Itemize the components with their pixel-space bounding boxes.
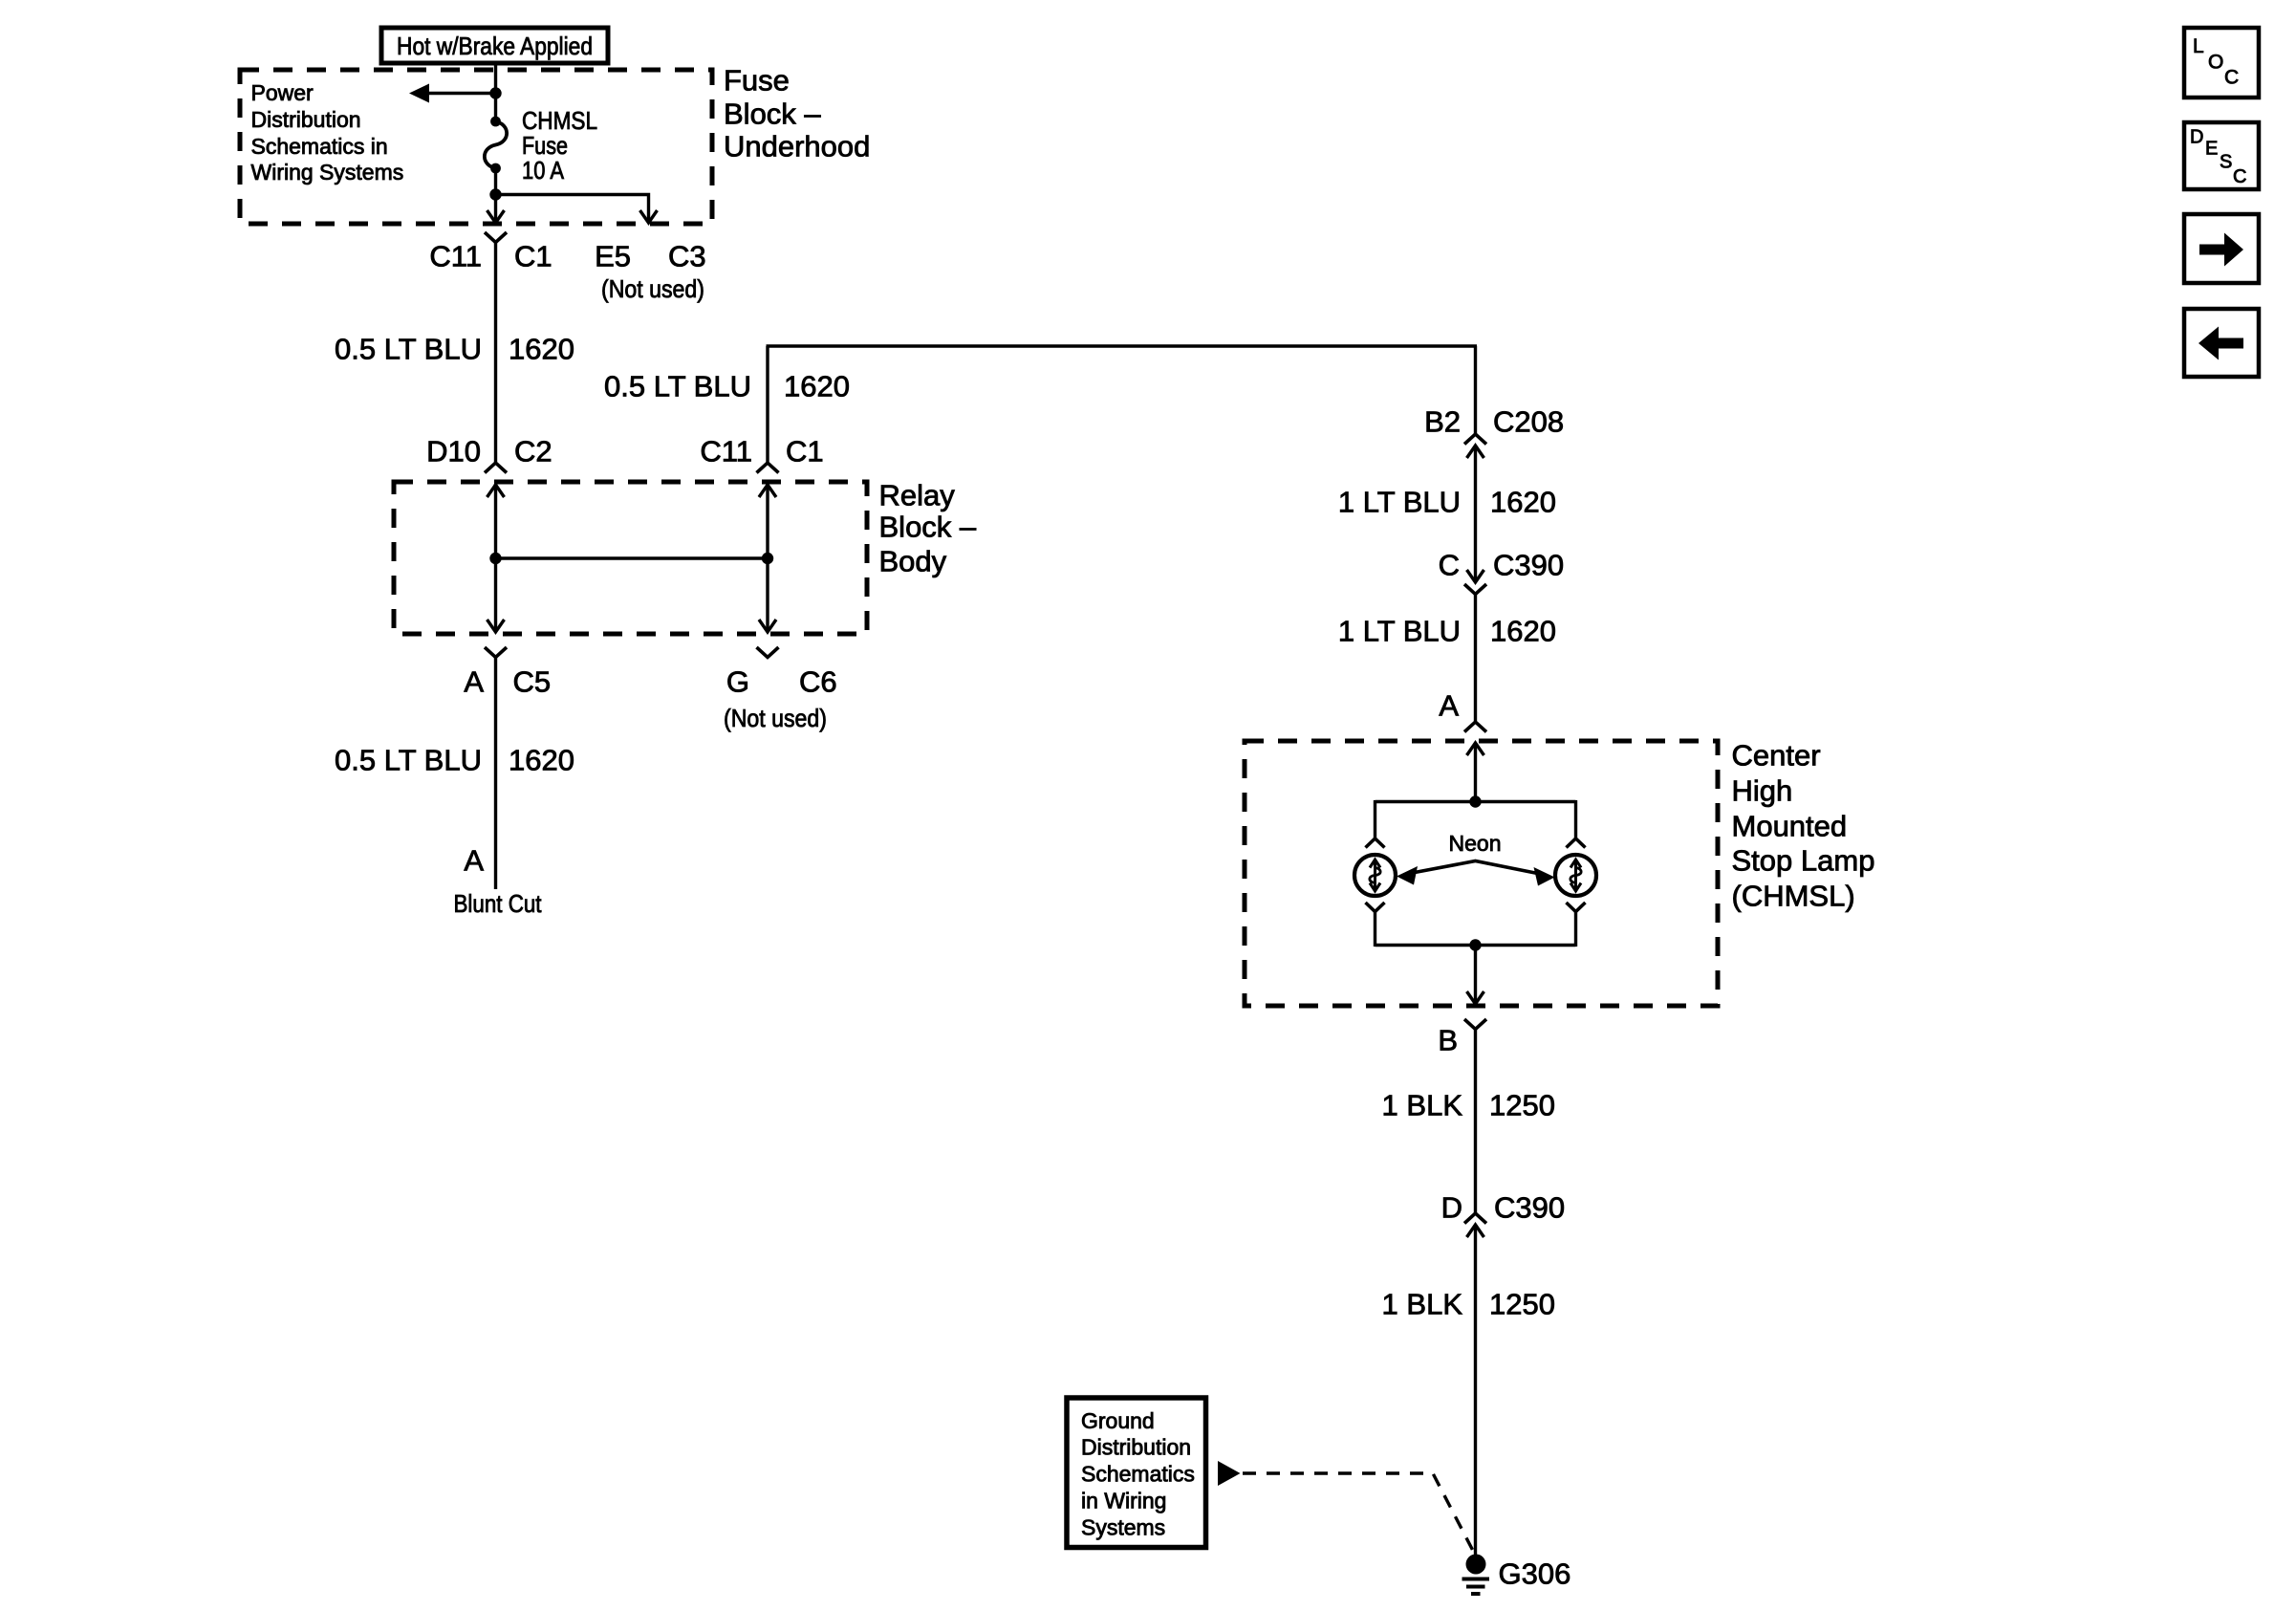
relay block internal wire left (D10 to C5) xyxy=(494,484,497,632)
wire C1 pin C11 down to relay block xyxy=(494,243,497,463)
svg-text:C11: C11 xyxy=(700,435,752,468)
arrow down at CHMSL pin B inside box xyxy=(1467,991,1484,1004)
svg-text:C208: C208 xyxy=(1493,405,1564,439)
center high mounted stop lamp dashed box xyxy=(1245,741,1718,1006)
nav icon back arrow xyxy=(2184,309,2259,377)
ground G306 symbol xyxy=(1462,1555,1490,1595)
node junction at brake feed xyxy=(489,87,501,98)
arrow down at pin A/C5 inside relay block xyxy=(487,620,505,632)
svg-text:in Wiring: in Wiring xyxy=(1081,1489,1166,1513)
fuse block - underhood dashed box xyxy=(240,70,712,224)
svg-text:0.5 LT BLU: 0.5 LT BLU xyxy=(335,333,482,366)
svg-text:D10: D10 xyxy=(426,435,481,468)
svg-text:C: C xyxy=(2224,67,2239,89)
neon lamp left xyxy=(1354,855,1396,896)
svg-text:1250: 1250 xyxy=(1489,1089,1555,1122)
svg-text:E5: E5 xyxy=(595,240,631,273)
svg-text:1250: 1250 xyxy=(1489,1288,1555,1321)
right lamp terminal chevron lower xyxy=(1567,903,1586,912)
relay block title Relay Block - Body xyxy=(879,479,977,578)
left lamp branch wire lower xyxy=(1374,912,1376,947)
arrow up at pin C11/C1 inside relay block xyxy=(759,485,776,497)
svg-text:C390: C390 xyxy=(1493,549,1564,582)
svg-text:Wiring Systems: Wiring Systems xyxy=(251,160,404,185)
node top lamp bus xyxy=(1469,795,1481,807)
svg-text:A: A xyxy=(464,844,484,878)
dashed reference wire to ground point xyxy=(1243,1473,1473,1551)
pointer lines from Neon to both lamps xyxy=(1407,861,1545,876)
note Power Distribution Schematics in Wiring Systems xyxy=(251,80,404,185)
nav icon forward arrow xyxy=(2184,214,2259,283)
svg-text:Neon: Neon xyxy=(1449,831,1502,856)
relay block internal wire right (C1 to C6) xyxy=(766,484,769,632)
nav icon LOC xyxy=(2184,28,2259,98)
svg-text:1620: 1620 xyxy=(509,744,574,777)
svg-text:1620: 1620 xyxy=(1490,486,1556,519)
wire lamp bus to CHMSL pin B xyxy=(1474,946,1477,1004)
svg-text:G306: G306 xyxy=(1499,1557,1571,1591)
svg-text:Center: Center xyxy=(1732,739,1821,773)
wire from Hot w/Brake Applied down into fuse block xyxy=(494,63,497,121)
left lamp terminal chevron upper xyxy=(1366,838,1385,848)
svg-text:(Not used): (Not used) xyxy=(601,274,704,303)
svg-text:(CHMSL): (CHMSL) xyxy=(1732,880,1855,913)
arrow down to pin C11 at fuse block edge xyxy=(487,210,505,223)
arrow up at pin D10 inside relay block xyxy=(487,485,505,497)
svg-text:Schematics in: Schematics in xyxy=(251,134,388,159)
nav icon DESC xyxy=(2184,122,2259,189)
arrow to left lamp xyxy=(1397,866,1418,885)
svg-text:Schematics: Schematics xyxy=(1081,1462,1195,1487)
svg-text:1620: 1620 xyxy=(784,370,850,403)
right lamp branch wire lower xyxy=(1574,912,1577,947)
svg-text:C: C xyxy=(2233,166,2246,187)
svg-text:C1: C1 xyxy=(514,240,552,273)
connector chevron below relay block (C6 pin G) xyxy=(757,647,779,658)
wire to power distribution feed xyxy=(428,92,496,95)
node on relay internal bus right xyxy=(762,553,773,564)
svg-text:A: A xyxy=(1439,689,1459,723)
svg-text:C1: C1 xyxy=(786,435,824,468)
node bottom lamp bus xyxy=(1469,939,1481,950)
long horizontal wire to CHMSL xyxy=(767,344,1478,347)
svg-text:0.5 LT BLU: 0.5 LT BLU xyxy=(335,744,482,777)
arrow down to pin E5 at fuse block edge xyxy=(640,210,658,223)
bottom lamp bus wire xyxy=(1375,944,1576,947)
svg-text:Stop Lamp: Stop Lamp xyxy=(1732,844,1875,878)
arrow down at pin G/C6 inside relay block xyxy=(759,620,776,632)
fuse value label CHMSL Fuse 10 A xyxy=(522,106,597,185)
connector chevron below CHMSL (pin B) xyxy=(1464,1019,1486,1030)
svg-text:E: E xyxy=(2205,139,2218,160)
svg-text:B2: B2 xyxy=(1424,405,1461,439)
svg-text:B: B xyxy=(1438,1024,1458,1057)
connector chevron above relay block (C1 pin C11) xyxy=(757,463,779,473)
svg-text:Distribution: Distribution xyxy=(251,107,361,132)
svg-text:D: D xyxy=(2190,127,2203,148)
svg-text:C6: C6 xyxy=(799,665,837,699)
in-line connector C390 pin C (down arrow + chevron) xyxy=(1467,570,1484,582)
wire C390 pin D down to ground G306 xyxy=(1474,1225,1477,1558)
left lamp terminal chevron lower xyxy=(1366,903,1385,912)
wire CHMSL pin B down to C390 xyxy=(1474,1030,1477,1215)
wire from relay pin A down to blunt cut xyxy=(494,658,497,890)
svg-text:D: D xyxy=(1441,1191,1462,1225)
svg-text:Relay: Relay xyxy=(879,479,956,512)
svg-text:Systems: Systems xyxy=(1081,1515,1165,1540)
top lamp bus wire xyxy=(1375,800,1576,803)
relay block - body dashed box xyxy=(394,482,867,634)
svg-text:Blunt Cut: Blunt Cut xyxy=(454,889,543,918)
svg-text:1 LT BLU: 1 LT BLU xyxy=(1338,486,1461,519)
svg-text:0.5 LT BLU: 0.5 LT BLU xyxy=(604,370,751,403)
relay internal bus wire xyxy=(496,556,769,559)
connector chevron below fuse block (C1 pin C11) xyxy=(485,232,507,243)
svg-text:L: L xyxy=(2193,35,2204,57)
left lamp branch wire upper xyxy=(1374,800,1376,838)
node below fuse xyxy=(489,188,501,200)
svg-text:Underhood: Underhood xyxy=(724,130,870,163)
wire branch to pin E5 xyxy=(496,195,649,222)
svg-text:C3: C3 xyxy=(668,240,706,273)
svg-text:Body: Body xyxy=(879,545,947,578)
svg-text:S: S xyxy=(2220,152,2232,173)
svg-text:1 BLK: 1 BLK xyxy=(1382,1288,1463,1321)
CHMSL title Center High Mounted Stop Lamp (CHMSL) xyxy=(1732,739,1875,913)
connector chevron below relay block (C5 pin A) xyxy=(485,647,507,658)
note box Ground Distribution Schematics in Wiring Systems xyxy=(1067,1398,1206,1548)
svg-text:10 A: 10 A xyxy=(522,156,565,185)
svg-text:1620: 1620 xyxy=(1490,615,1556,648)
svg-text:C: C xyxy=(1439,549,1460,582)
neon lamp right xyxy=(1555,855,1596,896)
svg-text:O: O xyxy=(2208,52,2223,74)
svg-text:Ground: Ground xyxy=(1081,1408,1155,1433)
wire pin A to lamp bus xyxy=(1474,743,1477,802)
node on relay internal bus left xyxy=(489,553,501,564)
svg-text:C11: C11 xyxy=(429,240,482,273)
fuse block title Fuse Block - Underhood xyxy=(724,64,870,163)
svg-text:C2: C2 xyxy=(514,435,552,468)
svg-text:Mounted: Mounted xyxy=(1732,810,1848,843)
arrow to power distribution schematics xyxy=(409,84,429,103)
right lamp terminal chevron upper xyxy=(1567,838,1586,848)
svg-text:G: G xyxy=(726,665,749,699)
arrow from ground distribution note xyxy=(1218,1461,1241,1486)
arrow up at CHMSL pin A inside box xyxy=(1467,743,1484,755)
connector chevron above relay block (C2 pin D10) xyxy=(485,463,507,473)
power label box "Hot w/Brake Applied" xyxy=(381,28,608,63)
svg-text:1 LT BLU: 1 LT BLU xyxy=(1338,615,1461,648)
svg-text:Hot w/Brake Applied: Hot w/Brake Applied xyxy=(397,32,593,60)
svg-text:A: A xyxy=(464,665,484,699)
svg-text:High: High xyxy=(1732,774,1793,808)
svg-text:Block –: Block – xyxy=(879,511,977,544)
svg-text:C5: C5 xyxy=(513,665,552,699)
arrow to right lamp xyxy=(1534,867,1555,886)
svg-text:Distribution: Distribution xyxy=(1081,1435,1191,1460)
wire down to connector C208 xyxy=(1474,346,1477,435)
wire from fuse to output pins xyxy=(494,168,497,221)
right lamp branch wire upper xyxy=(1574,800,1577,838)
wire from relay C1 up to corner xyxy=(766,346,769,462)
svg-text:1 BLK: 1 BLK xyxy=(1382,1089,1463,1122)
svg-text:C390: C390 xyxy=(1494,1191,1565,1225)
fuse CHMSL Fuse 10 A symbol xyxy=(485,117,507,174)
connector chevron above CHMSL (pin A) xyxy=(1464,722,1486,732)
svg-text:Block –: Block – xyxy=(724,98,821,131)
wire C208 to C390 xyxy=(1474,446,1477,582)
svg-text:Power: Power xyxy=(251,80,314,105)
in-line connector C208 pin B2 (chevron + up arrow) xyxy=(1464,434,1486,445)
svg-text:(Not used): (Not used) xyxy=(724,704,827,732)
in-line connector C390 pin D (chevron + up arrow) xyxy=(1464,1213,1486,1224)
svg-text:Fuse: Fuse xyxy=(724,64,790,98)
wire C390 to CHMSL pin A xyxy=(1474,595,1477,722)
svg-text:1620: 1620 xyxy=(509,333,574,366)
